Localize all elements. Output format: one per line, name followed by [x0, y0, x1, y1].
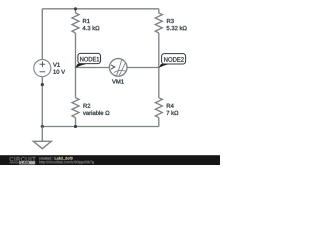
- wire middle left: [76, 67, 110, 69]
- wire middle right: [127, 67, 159, 69]
- label R4 7 kOhm: [167, 104, 179, 115]
- footer logo CIRCUIT LAB: [10, 157, 36, 164]
- resistor R1: [72, 9, 79, 68]
- node NODE2 flag: [159, 54, 186, 68]
- voltage source V1: [34, 60, 51, 77]
- label VM1: [112, 79, 124, 83]
- resistor R3: [155, 9, 162, 68]
- wire left rail top: [41, 9, 43, 60]
- footer text line 2: [39, 161, 94, 164]
- junction below V1: [41, 83, 44, 86]
- label V1 10 V: [53, 63, 65, 74]
- wire left rail bottom: [41, 77, 43, 127]
- junction top rail / R1: [74, 7, 77, 10]
- wire top rail: [42, 8, 159, 10]
- ground: [33, 127, 51, 149]
- footer bar: [0, 155, 220, 165]
- node NODE1 flag: [75, 53, 100, 68]
- label R1 4.3 kOhm: [83, 19, 100, 30]
- footer text line 1: [39, 157, 53, 160]
- resistor R2: [72, 68, 79, 127]
- junction bottom rail / R2: [74, 125, 77, 128]
- junction bottom-left: [41, 125, 44, 128]
- wire bottom rail: [42, 126, 159, 128]
- label R2 variable: [83, 104, 109, 115]
- voltmeter VM1: [109, 59, 127, 77]
- label R3 5.32 kOhm: [167, 19, 187, 30]
- resistor R4: [155, 68, 162, 127]
